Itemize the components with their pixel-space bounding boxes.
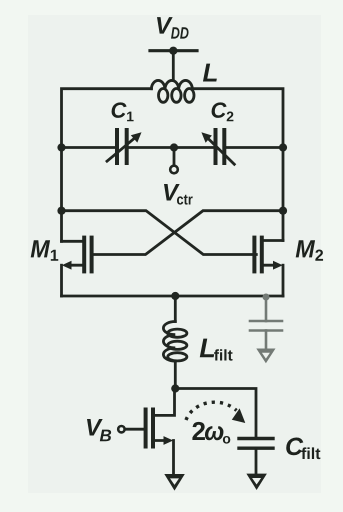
M2 source wire xyxy=(262,264,276,267)
M1 channel bar xyxy=(82,238,86,272)
tank top wire right xyxy=(193,89,283,148)
gray cap wire top xyxy=(265,296,268,321)
Cfilt bottom wire xyxy=(255,448,258,473)
M2 source arrowhead xyxy=(273,261,283,270)
gray cap bottom wire xyxy=(265,331,268,349)
tail node dot xyxy=(171,384,179,392)
right rail cross dot xyxy=(279,207,287,215)
right rail upper xyxy=(282,148,285,241)
label M2 xyxy=(296,240,323,260)
tail drain wire xyxy=(155,389,175,416)
M1 source drop xyxy=(60,265,63,296)
tail source wire xyxy=(153,439,167,442)
Cfilt top plate xyxy=(239,437,273,440)
M2 drain wire xyxy=(262,239,283,242)
varactor C2 arrow line xyxy=(205,136,234,165)
Vctr stub xyxy=(173,148,176,166)
Cfilt ground xyxy=(246,474,267,490)
C1 arrowhead xyxy=(131,132,142,142)
M1 source wire xyxy=(68,264,84,267)
gray ground xyxy=(256,349,275,364)
label VB xyxy=(87,419,111,441)
inductor L loops xyxy=(159,89,168,103)
label Lfilt xyxy=(200,339,233,361)
label M1 xyxy=(31,240,59,260)
cross wire left-top to M2 gate xyxy=(62,211,257,255)
tail channel bar xyxy=(151,410,155,447)
tail gate bar xyxy=(144,410,148,447)
varactor C1 plates xyxy=(115,130,119,163)
label Cfilt xyxy=(286,438,320,460)
bus center dot xyxy=(171,292,179,300)
tail gate wire xyxy=(125,428,146,431)
M2 gate bar xyxy=(252,238,256,272)
label L xyxy=(203,64,217,82)
varactor row wire right xyxy=(226,146,283,149)
tail source drop xyxy=(172,441,175,475)
gray cap top plate xyxy=(250,320,282,323)
Lfilt top lead xyxy=(174,296,177,322)
varactor row wire mid xyxy=(129,146,214,149)
VB terminal circle xyxy=(118,426,124,432)
2wo dotted arc xyxy=(186,402,237,420)
M2 source drop xyxy=(282,265,285,296)
varactor C2 plates xyxy=(214,130,218,163)
left rail cross dot xyxy=(57,207,65,215)
Lfilt humps xyxy=(163,322,175,362)
wire node to Cfilt branch xyxy=(175,389,256,438)
label Vctr xyxy=(164,184,193,205)
cross wire right-top to M1 gate xyxy=(92,211,283,255)
Lfilt loops xyxy=(168,329,187,337)
C2 arrowhead xyxy=(201,132,212,143)
left rail upper xyxy=(60,148,63,242)
VDD junction dot xyxy=(169,47,177,55)
left rail varactor dot xyxy=(57,143,65,151)
gray junction dot xyxy=(263,294,270,301)
label C2 xyxy=(212,102,234,121)
varactor C1 arrow line xyxy=(107,136,138,162)
label VDD xyxy=(157,17,189,39)
M1 source arrowhead xyxy=(62,261,72,270)
tail ground xyxy=(164,474,185,491)
supply bar VDD xyxy=(150,49,197,52)
source bus xyxy=(62,295,284,298)
varactor row wire left xyxy=(62,146,116,149)
tail source arrowhead xyxy=(164,436,174,445)
inductor L humps xyxy=(151,80,192,88)
M2 channel bar xyxy=(260,238,264,272)
right rail varactor dot xyxy=(279,143,287,151)
Cfilt bottom plate xyxy=(239,447,273,450)
wire VDD to inductor tap xyxy=(172,51,175,81)
tank top wire left xyxy=(62,89,152,148)
Vctr terminal circle xyxy=(170,166,178,174)
label 2wo xyxy=(192,422,230,444)
gray cap bottom plate xyxy=(250,329,282,332)
center varactor node dot xyxy=(170,143,178,151)
M1 drain wire xyxy=(62,240,85,243)
2wo arrowhead xyxy=(232,408,246,423)
inner panel xyxy=(28,15,321,493)
label C1 xyxy=(112,102,134,121)
M1 gate bar xyxy=(90,238,94,272)
Lfilt bottom lead xyxy=(174,361,177,388)
